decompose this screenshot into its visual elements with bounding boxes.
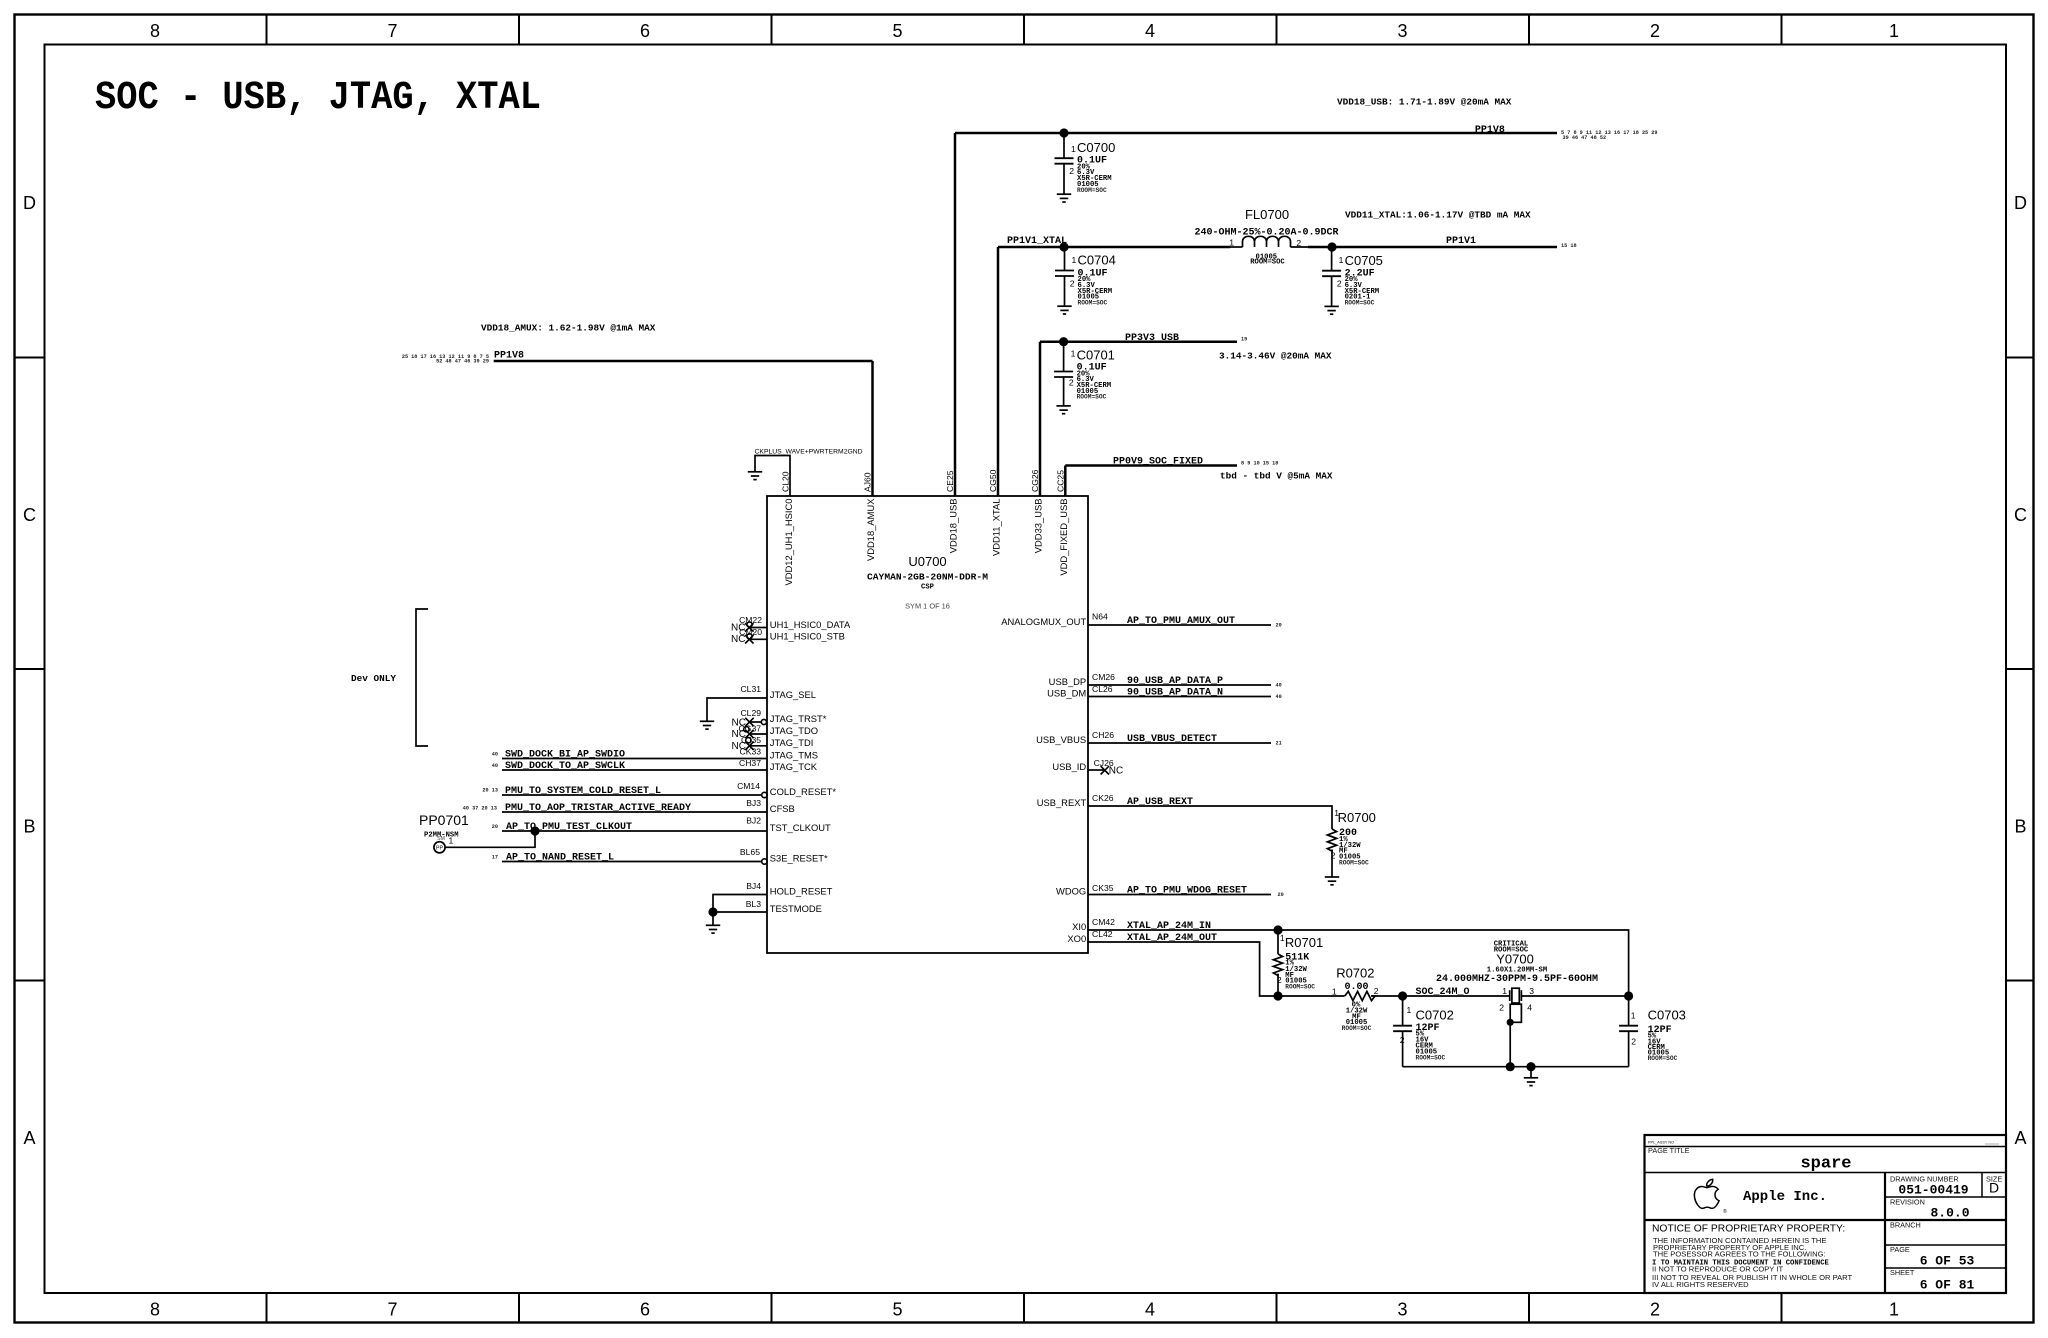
svg-text:2: 2 <box>1337 279 1342 289</box>
svg-text:B: B <box>2014 817 2026 837</box>
svg-text:2: 2 <box>1650 1300 1660 1320</box>
svg-text:VDD18_USB: 1.71-1.89V @20mA MA: VDD18_USB: 1.71-1.89V @20mA MAX <box>1337 97 1512 108</box>
wire USB_VBUS_DETECT <box>1088 730 1282 746</box>
svg-text:VDD18_AMUX: VDD18_AMUX <box>865 498 876 561</box>
svg-text:BJ3: BJ3 <box>746 798 761 808</box>
svg-text:USB_ID: USB_ID <box>1052 761 1086 772</box>
wire 90_USB_AP_DATA_P <box>1088 672 1282 689</box>
svg-text:20: 20 <box>492 824 498 830</box>
svg-text:240-OHM-25%-0.20A-0.9DCR: 240-OHM-25%-0.20A-0.9DCR <box>1194 227 1338 238</box>
svg-text:1: 1 <box>1229 238 1234 248</box>
svg-text:AP_TO_PMU_AMUX_OUT: AP_TO_PMU_AMUX_OUT <box>1127 616 1235 627</box>
svg-text:A: A <box>2014 1128 2026 1148</box>
svg-text:JTAG_TDI: JTAG_TDI <box>770 737 814 748</box>
svg-text:40: 40 <box>1276 683 1282 689</box>
svg-text:ROOM=SOC: ROOM=SOC <box>1339 859 1369 866</box>
svg-text:1: 1 <box>1889 1300 1899 1320</box>
svg-text:1: 1 <box>1407 1005 1412 1015</box>
svg-text:Y0700: Y0700 <box>1496 952 1534 967</box>
pin CJ26 USB_ID NC <box>1088 758 1123 777</box>
svg-text:8: 8 <box>150 21 160 41</box>
svg-text:40: 40 <box>1276 694 1282 700</box>
svg-text:C0700: C0700 <box>1077 140 1115 155</box>
chip top pin numbers <box>780 469 1065 492</box>
wire AP_TO_PMU_AMUX_OUT <box>1088 612 1282 629</box>
svg-text:CFSB: CFSB <box>770 803 795 814</box>
svg-text:XO0: XO0 <box>1067 933 1086 944</box>
svg-text:CKPLUS_WAVE+PWRTERM2GND: CKPLUS_WAVE+PWRTERM2GND <box>755 449 863 456</box>
svg-text:BRANCH: BRANCH <box>1890 1221 1921 1230</box>
svg-text:SHEET: SHEET <box>1890 1268 1915 1277</box>
svg-text:2: 2 <box>1631 1037 1636 1047</box>
svg-text:1: 1 <box>1071 144 1076 154</box>
svg-text:WDOG: WDOG <box>1056 886 1086 897</box>
svg-text:PP: PP <box>436 845 443 851</box>
svg-text:UH1_HSIC0_DATA: UH1_HSIC0_DATA <box>770 619 851 630</box>
svg-text:CC25: CC25 <box>1055 470 1065 492</box>
wire SWD_DOCK_TO_AP_SWCLK <box>492 758 767 772</box>
wire XTAL_AP_24M_IN <box>1088 917 1629 996</box>
chip left pin names <box>770 619 851 914</box>
svg-text:USB_VBUS: USB_VBUS <box>1036 734 1086 745</box>
ground C0700 <box>1057 194 1071 202</box>
node R0701 bottom junction <box>1273 991 1282 1000</box>
svg-text:20: 20 <box>1278 892 1284 898</box>
svg-text:SOC - USB, JTAG, XTAL: SOC - USB, JTAG, XTAL <box>95 76 541 121</box>
wire net PP1V8 left <box>494 360 873 363</box>
svg-text:BJ2: BJ2 <box>746 816 761 826</box>
svg-text:1: 1 <box>1502 986 1507 996</box>
svg-text:JTAG_TDO: JTAG_TDO <box>770 725 818 736</box>
ground R0700 <box>1325 877 1339 885</box>
svg-text:40: 40 <box>492 752 498 758</box>
svg-text:1: 1 <box>449 835 454 845</box>
svg-text:3: 3 <box>1529 986 1534 996</box>
testpoint PP0701 <box>419 812 535 853</box>
svg-text:7: 7 <box>387 21 397 41</box>
svg-text:VDD18_USB: VDD18_USB <box>948 499 959 554</box>
svg-text:UH1_HSIC0_STB: UH1_HSIC0_STB <box>770 631 845 642</box>
svg-text:CM26: CM26 <box>1092 672 1115 682</box>
svg-text:CSP: CSP <box>921 584 935 592</box>
node PP1V1 junction C0705 <box>1327 242 1336 251</box>
capacitor C0701 <box>1054 342 1115 406</box>
svg-text:NC: NC <box>1109 765 1123 776</box>
svg-text:JTAG_TRST*: JTAG_TRST* <box>770 713 827 724</box>
svg-text:ROOM=SOC: ROOM=SOC <box>1077 187 1107 194</box>
svg-text:CL26: CL26 <box>1092 684 1113 694</box>
svg-text:spare: spare <box>1800 1155 1851 1174</box>
svg-text:U0700: U0700 <box>908 554 946 569</box>
svg-text:SM: SM <box>437 836 445 842</box>
capacitor C0702 <box>1393 996 1454 1067</box>
svg-text:PAGE TITLE: PAGE TITLE <box>1648 1146 1690 1155</box>
node crystal pin2 case <box>1507 1019 1514 1026</box>
svg-text:C: C <box>23 505 36 525</box>
wire JTAG_SEL to ground <box>707 684 767 721</box>
svg-text:2: 2 <box>1499 1002 1504 1012</box>
svg-text:CK26: CK26 <box>1092 793 1114 803</box>
ground crystal <box>1530 1067 1532 1078</box>
svg-text:BL3: BL3 <box>746 899 762 909</box>
svg-text:D: D <box>2014 193 2027 213</box>
svg-text:2: 2 <box>1650 21 1660 41</box>
svg-text:A: A <box>23 1128 35 1148</box>
pin CM22 UH1_HSIC0_DATA NC <box>731 615 767 633</box>
svg-text:20 13: 20 13 <box>482 788 498 794</box>
svg-text:21: 21 <box>1276 741 1282 747</box>
svg-text:TST_CLKOUT: TST_CLKOUT <box>770 822 831 833</box>
svg-text:PP0V9_SOC_FIXED: PP0V9_SOC_FIXED <box>1113 456 1203 467</box>
svg-text:CH37: CH37 <box>739 758 761 768</box>
wire PMU_TO_SYSTEM_COLD_RESET_L <box>482 781 767 798</box>
node junction C0703 top <box>1624 991 1633 1000</box>
node crystal gnd junctions <box>1506 1062 1515 1071</box>
wire net PP1V8 top <box>955 132 1557 135</box>
svg-text:TESTMODE: TESTMODE <box>770 903 822 914</box>
pin CM20 UH1_HSIC0_STB NC <box>731 627 767 645</box>
svg-text:NC: NC <box>731 634 745 645</box>
resistor R0700 <box>1327 808 1376 877</box>
svg-text:Dev ONLY: Dev ONLY <box>351 673 396 684</box>
svg-text:R0702: R0702 <box>1336 966 1374 981</box>
svg-text:PP1V1_XTAL: PP1V1_XTAL <box>1007 236 1067 247</box>
svg-text:0.00: 0.00 <box>1345 982 1369 993</box>
svg-text:®: ® <box>1723 1208 1727 1215</box>
svg-text:15 18: 15 18 <box>1561 243 1577 249</box>
svg-text:SYM 1 OF 16: SYM 1 OF 16 <box>905 602 950 611</box>
svg-text:PP1V8: PP1V8 <box>1475 125 1505 136</box>
svg-text:24.000MHZ-30PPM-9.5PF-60OHM: 24.000MHZ-30PPM-9.5PF-60OHM <box>1436 974 1598 985</box>
svg-text:C0701: C0701 <box>1077 347 1115 362</box>
svg-text:REVISION: REVISION <box>1890 1198 1925 1207</box>
svg-text:USB_VBUS_DETECT: USB_VBUS_DETECT <box>1127 734 1217 745</box>
svg-text:PPL_ASSY NO: PPL_ASSY NO <box>1648 1141 1674 1145</box>
wire HOLD_RESET / TESTMODE to ground <box>713 881 767 925</box>
svg-text:2: 2 <box>1277 975 1282 985</box>
svg-text:VDD11_XTAL:1.06-1.17V @TBD mA: VDD11_XTAL:1.06-1.17V @TBD mA MAX <box>1345 210 1531 221</box>
svg-text:C0703: C0703 <box>1648 1008 1686 1023</box>
pin CJ35 JTAG_TDI NC <box>732 735 767 752</box>
svg-text:40: 40 <box>492 763 498 769</box>
resistor R0702 <box>1332 966 1379 1033</box>
svg-text:SWD_DOCK_BI_AP_SWDIO: SWD_DOCK_BI_AP_SWDIO <box>505 750 625 761</box>
svg-text:PMU_TO_SYSTEM_COLD_RESET_L: PMU_TO_SYSTEM_COLD_RESET_L <box>505 786 661 797</box>
ground C0704 <box>1057 306 1071 314</box>
svg-text:3: 3 <box>1397 21 1407 41</box>
inductor FL0700 <box>1194 207 1338 267</box>
capacitor C0703 <box>1619 996 1686 1067</box>
svg-text:17: 17 <box>492 854 498 860</box>
svg-text:ROOM=SOC: ROOM=SOC <box>1250 259 1285 267</box>
svg-text:4: 4 <box>1145 21 1155 41</box>
svg-text:6: 6 <box>640 21 650 41</box>
svg-text:8: 8 <box>150 1300 160 1320</box>
wire net PP3V3_USB <box>1040 340 1237 343</box>
svg-text:AJ60: AJ60 <box>863 472 873 492</box>
svg-text:USB_DP: USB_DP <box>1049 676 1087 687</box>
wire net PP0V9_SOC_FIXED <box>1065 464 1237 467</box>
svg-text:2: 2 <box>1331 851 1336 861</box>
svg-text:VDD33_USB: VDD33_USB <box>1033 499 1044 554</box>
wire AP_TO_PMU_WDOG_RESET <box>1088 883 1284 898</box>
svg-text:PAGE: PAGE <box>1890 1245 1910 1254</box>
svg-text:3: 3 <box>1397 1300 1407 1320</box>
Dev ONLY bracket <box>351 609 428 746</box>
svg-text:S3E_RESET*: S3E_RESET* <box>770 853 828 864</box>
svg-text:CM42: CM42 <box>1092 917 1115 927</box>
svg-text:CL31: CL31 <box>740 684 761 694</box>
svg-text:HOLD_RESET: HOLD_RESET <box>770 886 833 897</box>
wire PMU_TO_AOP_TRISTAR_ACTIVE_READY <box>463 798 767 814</box>
svg-text:ROOM=SOC: ROOM=SOC <box>1345 300 1375 307</box>
node XTAL_AP_24M_IN junction R0701 <box>1273 925 1282 934</box>
wire AP_USB_REXT <box>1088 793 1332 829</box>
svg-text:CH26: CH26 <box>1092 730 1114 740</box>
wire AP_TO_PMU_TEST_CLKOUT <box>492 816 767 834</box>
crystal Y0700 <box>1436 940 1598 1066</box>
svg-text:IV ALL RIGHTS RESERVED: IV ALL RIGHTS RESERVED <box>1652 1280 1749 1289</box>
svg-text:XI0: XI0 <box>1072 921 1086 932</box>
svg-text:90_USB_AP_DATA_N: 90_USB_AP_DATA_N <box>1127 688 1223 699</box>
svg-text:JTAG_SEL: JTAG_SEL <box>770 689 816 700</box>
svg-text:VDD18_AMUX: 1.62-1.98V @1mA M: VDD18_AMUX: 1.62-1.98V @1mA MAX <box>481 323 656 334</box>
svg-text:5: 5 <box>892 21 902 41</box>
svg-text:2: 2 <box>1400 1035 1405 1045</box>
svg-text:90_USB_AP_DATA_P: 90_USB_AP_DATA_P <box>1127 676 1223 687</box>
svg-text:6 OF 53: 6 OF 53 <box>1920 1254 1975 1269</box>
wire SOC_24M_O <box>1371 987 1510 998</box>
svg-text:CE25: CE25 <box>945 470 955 492</box>
svg-text:3.14-3.46V @20mA MAX: 3.14-3.46V @20mA MAX <box>1219 351 1332 362</box>
svg-text:4: 4 <box>1145 1300 1155 1320</box>
capacitor C0700 <box>1055 133 1116 194</box>
svg-text:D: D <box>1989 1180 1999 1196</box>
node SOC_24M_O junction C0702 <box>1398 991 1407 1000</box>
svg-text:JTAG_TMS: JTAG_TMS <box>770 750 818 761</box>
wire XTAL_AP_24M_OUT <box>1088 929 1345 996</box>
svg-text:40 37 20 13: 40 37 20 13 <box>463 806 497 812</box>
svg-text:R0700: R0700 <box>1338 810 1376 825</box>
op chip U0700 <box>767 496 1088 953</box>
svg-text:FL0700: FL0700 <box>1245 207 1289 222</box>
svg-text:8 9 10 15 18: 8 9 10 15 18 <box>1241 460 1278 466</box>
net CKPLUS_WAVE+PWRTERM2GND <box>755 449 863 496</box>
svg-text:20: 20 <box>1276 623 1282 629</box>
ground TESTMODE <box>706 925 720 933</box>
svg-text:2: 2 <box>1069 166 1074 176</box>
svg-text:PP1V8: PP1V8 <box>494 350 524 361</box>
svg-text:CK33: CK33 <box>740 747 762 757</box>
ground JTAG_SEL <box>700 721 714 729</box>
svg-text:C: C <box>2014 505 2027 525</box>
wire net PP1V1 <box>1308 246 1557 249</box>
svg-text:AP_TO_NAND_RESET_L: AP_TO_NAND_RESET_L <box>506 853 614 864</box>
ground C0701 <box>1056 406 1070 414</box>
node PP1V8 junction C0700 <box>1059 128 1068 137</box>
svg-text:1: 1 <box>1889 21 1899 41</box>
svg-text:ROOM=SOC: ROOM=SOC <box>1648 1055 1678 1062</box>
svg-text:AP_TO_PMU_TEST_CLKOUT: AP_TO_PMU_TEST_CLKOUT <box>506 822 632 833</box>
svg-text:R0701: R0701 <box>1285 935 1323 950</box>
chip top pin names <box>783 498 1069 586</box>
svg-text:NOTICE OF PROPRIETARY PROPERTY: NOTICE OF PROPRIETARY PROPERTY: <box>1652 1224 1845 1235</box>
svg-text:051-00419: 051-00419 <box>1898 1183 1968 1198</box>
svg-text:1: 1 <box>1071 349 1076 359</box>
title block <box>1645 1135 2007 1293</box>
svg-text:JTAG_TCK: JTAG_TCK <box>770 761 818 772</box>
svg-text:SOC_24M_O: SOC_24M_O <box>1416 987 1470 998</box>
svg-text:BL65: BL65 <box>740 847 760 857</box>
svg-text:ROOM=SOC: ROOM=SOC <box>1285 984 1315 991</box>
svg-text:PMU_TO_AOP_TRISTAR_ACTIVE_READ: PMU_TO_AOP_TRISTAR_ACTIVE_READY <box>505 803 691 814</box>
svg-text:CL42: CL42 <box>1092 929 1113 939</box>
Apple logo <box>1694 1179 1719 1208</box>
svg-text:C0702: C0702 <box>1416 1007 1454 1022</box>
svg-text:ROOM=SOC: ROOM=SOC <box>1416 1054 1446 1061</box>
svg-text:1: 1 <box>1332 987 1337 997</box>
svg-text:19: 19 <box>1241 337 1247 343</box>
svg-text:B: B <box>23 817 35 837</box>
svg-text:ANALOGMUX_OUT: ANALOGMUX_OUT <box>1001 616 1086 627</box>
capacitor C0704 <box>1055 247 1116 307</box>
svg-text:4: 4 <box>1527 1002 1532 1012</box>
svg-text:AP_USB_REXT: AP_USB_REXT <box>1127 797 1193 808</box>
svg-text:COLD_RESET*: COLD_RESET* <box>770 786 837 797</box>
node TST_CLKOUT junction <box>530 826 539 835</box>
svg-text:N64: N64 <box>1092 612 1108 622</box>
svg-text:1: 1 <box>1072 255 1077 265</box>
wire SWD_DOCK_BI_AP_SWDIO <box>492 747 767 761</box>
svg-text:VDD_FIXED_USB: VDD_FIXED_USB <box>1058 499 1069 576</box>
svg-text:CG50: CG50 <box>988 469 998 492</box>
ground CKPLUS <box>748 472 762 480</box>
svg-text:PP3V3_USB: PP3V3_USB <box>1125 333 1179 344</box>
svg-text:ROOM=SOC: ROOM=SOC <box>1077 394 1107 401</box>
pin CL29 JTAG_TRST* NC <box>732 708 767 728</box>
wire crystal right to C0703 <box>1521 995 1628 997</box>
svg-text:6 OF 81: 6 OF 81 <box>1920 1278 1975 1293</box>
pin CG37 JTAG_TDO NC <box>732 723 767 740</box>
svg-text:USB_REXT: USB_REXT <box>1037 797 1087 808</box>
svg-text:CL20: CL20 <box>780 471 790 492</box>
svg-text:ROOM=SOC: ROOM=SOC <box>1342 1025 1372 1032</box>
svg-text:2: 2 <box>1069 378 1074 388</box>
svg-text:XTAL_AP_24M_IN: XTAL_AP_24M_IN <box>1127 921 1211 932</box>
node TESTMODE junction <box>708 907 717 916</box>
svg-text:7: 7 <box>387 1300 397 1320</box>
svg-text:XTAL_AP_24M_OUT: XTAL_AP_24M_OUT <box>1127 933 1217 944</box>
svg-text:CK35: CK35 <box>1092 883 1114 893</box>
svg-text:CM14: CM14 <box>737 781 760 791</box>
svg-text:2: 2 <box>1296 238 1301 248</box>
svg-text:CG26: CG26 <box>1030 469 1040 492</box>
node PP3V3_USB junction C0701 <box>1059 337 1068 346</box>
capacitor C0705 <box>1322 247 1383 307</box>
svg-text:AP_TO_PMU_WDOG_RESET: AP_TO_PMU_WDOG_RESET <box>1127 886 1247 897</box>
svg-text:1: 1 <box>1339 255 1344 265</box>
ground C0705 <box>1324 306 1338 314</box>
svg-text:2: 2 <box>1374 986 1379 996</box>
wire AP_TO_NAND_RESET_L <box>492 847 767 864</box>
svg-text:USB_DM: USB_DM <box>1047 688 1086 699</box>
svg-text:6: 6 <box>640 1300 650 1320</box>
svg-text:BJ4: BJ4 <box>746 881 761 891</box>
svg-text:52 48 47 46 39 29: 52 48 47 46 39 29 <box>436 359 489 365</box>
chip right pin names <box>1001 616 1086 944</box>
svg-text:PP0701: PP0701 <box>419 812 469 828</box>
svg-text:C0704: C0704 <box>1078 253 1116 268</box>
svg-text:1: 1 <box>1631 1010 1636 1020</box>
wire 90_USB_AP_DATA_N <box>1088 684 1282 700</box>
svg-text:5: 5 <box>892 1300 902 1320</box>
svg-text:VDD11_XTAL: VDD11_XTAL <box>991 499 1002 557</box>
svg-text:SWD_DOCK_TO_AP_SWCLK: SWD_DOCK_TO_AP_SWCLK <box>505 761 625 772</box>
svg-text:PP1V1: PP1V1 <box>1446 236 1476 247</box>
svg-text:THE POSESSOR AGREES TO THE FOL: THE POSESSOR AGREES TO THE FOLLOWING: <box>1653 1250 1826 1259</box>
svg-text:Apple Inc.: Apple Inc. <box>1743 1189 1827 1205</box>
wire net PP1V1_XTAL <box>998 246 1230 249</box>
resistor R0701 <box>1273 930 1323 996</box>
svg-text:CAYMAN-2GB-20NM-DDR-M: CAYMAN-2GB-20NM-DDR-M <box>867 572 988 583</box>
wire xtal bottom rail <box>1403 1066 1629 1068</box>
svg-text:C0705: C0705 <box>1345 253 1383 268</box>
node PP1V1_XTAL junction C0704 <box>1059 242 1068 251</box>
svg-text:39 46 47 48 52: 39 46 47 48 52 <box>1563 135 1607 141</box>
svg-text:8.0.0: 8.0.0 <box>1930 1206 1969 1221</box>
svg-text:ROOM=SOC: ROOM=SOC <box>1078 300 1108 307</box>
svg-text:tbd - tbd V @5mA MAX: tbd - tbd V @5mA MAX <box>1220 471 1333 482</box>
svg-text:VDD12_UH1_HSIC0: VDD12_UH1_HSIC0 <box>783 499 794 586</box>
svg-text:2: 2 <box>1070 279 1075 289</box>
svg-text:D: D <box>23 193 36 213</box>
